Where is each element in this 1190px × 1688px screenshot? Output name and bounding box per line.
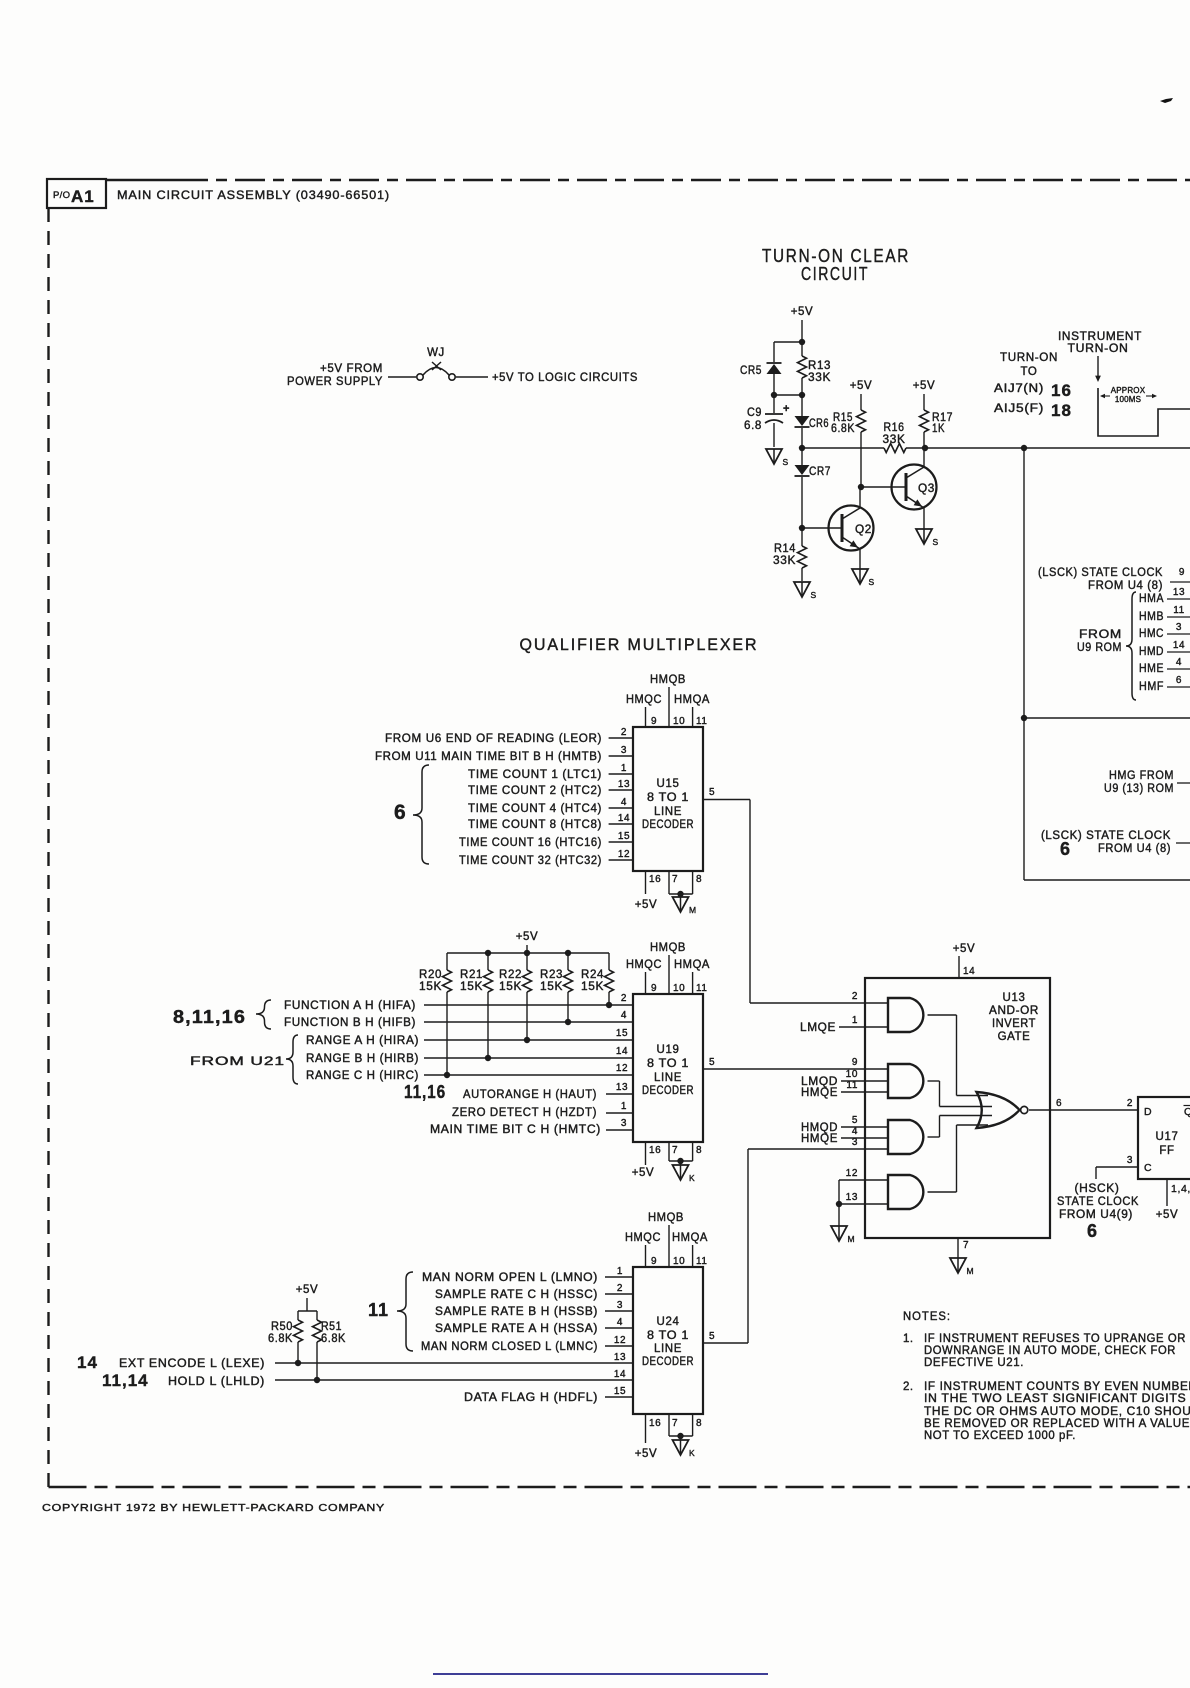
svg-text:M: M [967, 1266, 974, 1276]
svg-text:Q3: Q3 [918, 483, 935, 495]
svg-text:TIME COUNT 32 (HTC32): TIME COUNT 32 (HTC32) [459, 855, 602, 867]
svg-text:MAN NORM OPEN L (LMNO): MAN NORM OPEN L (LMNO) [422, 1272, 598, 1284]
svg-text:R22: R22 [499, 969, 522, 981]
svg-text:M: M [848, 1234, 855, 1244]
svg-text:ZERO DETECT H (HZDT): ZERO DETECT H (HZDT) [452, 1107, 597, 1119]
svg-text:11,14: 11,14 [102, 1371, 149, 1390]
svg-text:U24: U24 [657, 1316, 680, 1328]
svg-text:RANGE B H (HIRB): RANGE B H (HIRB) [306, 1053, 419, 1065]
svg-text:DECODER: DECODER [642, 1356, 694, 1368]
svg-text:15K: 15K [460, 981, 483, 993]
svg-text:HMQE: HMQE [801, 1133, 838, 1145]
svg-text:15K: 15K [419, 981, 442, 993]
svg-text:3: 3 [617, 1300, 623, 1311]
svg-text:TO: TO [1021, 366, 1038, 378]
svg-text:3: 3 [1127, 1155, 1133, 1166]
svg-text:Q: Q [1184, 1106, 1190, 1118]
svg-text:FROM U4(9): FROM U4(9) [1059, 1209, 1133, 1221]
svg-text:R51: R51 [321, 1321, 342, 1333]
svg-text:11: 11 [696, 716, 708, 727]
svg-text:TURN-ON: TURN-ON [1000, 352, 1058, 364]
svg-text:HMQC: HMQC [626, 694, 662, 706]
svg-text:AIJ7(N): AIJ7(N) [994, 383, 1044, 395]
svg-text:SAMPLE RATE B H (HSSB): SAMPLE RATE B H (HSSB) [435, 1306, 598, 1318]
svg-text:4: 4 [617, 1317, 623, 1328]
svg-text:+5V: +5V [516, 931, 539, 943]
svg-text:15: 15 [618, 831, 630, 842]
svg-text:TIME COUNT 2 (HTC2): TIME COUNT 2 (HTC2) [468, 785, 602, 797]
svg-text:1,4,: 1,4, [1171, 1183, 1190, 1195]
svg-text:FROM U4 (8): FROM U4 (8) [1098, 843, 1171, 855]
svg-text:3: 3 [621, 745, 627, 756]
svg-text:13: 13 [614, 1352, 626, 1363]
svg-text:+5V: +5V [913, 380, 936, 392]
svg-text:U15: U15 [657, 778, 680, 790]
svg-text:9: 9 [651, 716, 657, 727]
svg-text:16: 16 [1051, 381, 1072, 400]
svg-text:4: 4 [621, 797, 627, 808]
svg-text:+: + [783, 403, 790, 415]
svg-text:9: 9 [651, 983, 657, 994]
svg-text:R14: R14 [774, 543, 796, 555]
svg-text:11: 11 [368, 1300, 389, 1320]
svg-text:4: 4 [621, 1010, 627, 1021]
svg-text:2.: 2. [903, 1381, 914, 1393]
svg-text:6: 6 [1176, 675, 1182, 686]
svg-text:CR6: CR6 [809, 418, 829, 430]
svg-text:8: 8 [696, 874, 702, 885]
svg-text:Q2: Q2 [855, 524, 872, 536]
svg-text:33K: 33K [808, 372, 831, 384]
svg-text:MAIN TIME BIT C H (HMTC): MAIN TIME BIT C H (HMTC) [430, 1124, 601, 1136]
svg-text:16: 16 [649, 1145, 661, 1156]
svg-text:WJ: WJ [427, 347, 445, 359]
svg-text:TIME COUNT 4 (HTC4): TIME COUNT 4 (HTC4) [468, 803, 602, 815]
svg-text:DEFECTIVE U21.: DEFECTIVE U21. [924, 1357, 1024, 1369]
svg-text:11: 11 [696, 1256, 708, 1267]
svg-text:1: 1 [621, 1101, 627, 1112]
svg-text:5: 5 [852, 1115, 858, 1126]
svg-text:12: 12 [616, 1063, 628, 1074]
svg-text:15K: 15K [581, 981, 604, 993]
svg-text:14: 14 [614, 1369, 626, 1380]
svg-text:33K: 33K [883, 434, 906, 446]
svg-text:2: 2 [621, 727, 627, 738]
svg-text:DOWNRANGE IN AUTO MODE, CHECK: DOWNRANGE IN AUTO MODE, CHECK FOR [924, 1345, 1176, 1357]
svg-text:8,11,16: 8,11,16 [173, 1007, 246, 1027]
svg-text:TIME COUNT 16 (HTC16): TIME COUNT 16 (HTC16) [459, 837, 602, 849]
svg-text:11: 11 [696, 983, 708, 994]
svg-text:FROM U11 MAIN TIME BIT B H (HM: FROM U11 MAIN TIME BIT B H (HMTB) [375, 751, 602, 763]
svg-text:11: 11 [846, 1080, 858, 1091]
svg-text:3: 3 [852, 1137, 858, 1148]
svg-text:LMQE: LMQE [800, 1022, 836, 1034]
svg-text:8: 8 [696, 1418, 702, 1429]
svg-text:INSTRUMENT: INSTRUMENT [1058, 331, 1142, 343]
svg-text:STATE CLOCK: STATE CLOCK [1057, 1196, 1139, 1208]
svg-text:6.8K: 6.8K [268, 1333, 293, 1345]
svg-text:100MS: 100MS [1115, 395, 1141, 404]
svg-text:15: 15 [616, 1028, 628, 1039]
svg-text:14: 14 [1173, 640, 1185, 651]
svg-text:LINE: LINE [654, 1343, 682, 1355]
svg-text:SAMPLE RATE A H (HSSA): SAMPLE RATE A H (HSSA) [435, 1323, 598, 1335]
svg-text:1.: 1. [903, 1333, 914, 1345]
svg-text:15K: 15K [540, 981, 563, 993]
svg-text:15K: 15K [499, 981, 522, 993]
svg-text:INVERT: INVERT [992, 1018, 1036, 1030]
svg-text:HMQE: HMQE [801, 1087, 838, 1099]
svg-text:10: 10 [673, 1256, 685, 1267]
svg-text:S: S [783, 457, 789, 467]
svg-text:+5V: +5V [1156, 1209, 1179, 1221]
svg-text:FROM U6 END OF READING (LEOR): FROM U6 END OF READING (LEOR) [385, 733, 602, 745]
svg-text:6.8K: 6.8K [321, 1333, 346, 1345]
svg-text:U9 ROM: U9 ROM [1077, 642, 1122, 654]
svg-text:MAN NORM CLOSED L (LMNC): MAN NORM CLOSED L (LMNC) [421, 1341, 598, 1353]
svg-text:+5V: +5V [953, 943, 976, 955]
svg-text:HMQC: HMQC [626, 959, 662, 971]
svg-text:7: 7 [963, 1240, 969, 1251]
svg-text:13: 13 [846, 1192, 858, 1203]
svg-text:HMQA: HMQA [674, 694, 710, 706]
svg-text:FUNCTION B H (HIFB): FUNCTION B H (HIFB) [284, 1017, 416, 1029]
svg-text:SAMPLE RATE C H (HSSC): SAMPLE RATE C H (HSSC) [435, 1289, 598, 1301]
svg-text:NOT TO EXCEED 1000 pF.: NOT TO EXCEED 1000 pF. [924, 1430, 1076, 1442]
svg-text:1K: 1K [932, 423, 945, 435]
svg-text:CIRCUIT: CIRCUIT [801, 264, 869, 284]
svg-text:6: 6 [394, 801, 406, 824]
svg-text:(LSCK) STATE CLOCK: (LSCK) STATE CLOCK [1038, 567, 1163, 579]
svg-text:11: 11 [1173, 605, 1185, 616]
svg-text:5: 5 [709, 787, 715, 798]
svg-text:14: 14 [963, 966, 975, 977]
svg-text:6: 6 [1060, 839, 1071, 859]
svg-text:EXT ENCODE L (LEXE): EXT ENCODE L (LEXE) [119, 1358, 265, 1370]
svg-text:HMQB: HMQB [648, 1212, 684, 1224]
svg-text:7: 7 [672, 874, 678, 885]
svg-text:R16: R16 [884, 422, 905, 434]
svg-text:+5V TO LOGIC CIRCUITS: +5V TO LOGIC CIRCUITS [492, 372, 638, 384]
svg-text:HMD: HMD [1139, 646, 1164, 658]
svg-text:HOLD L (LHLD): HOLD L (LHLD) [168, 1376, 265, 1388]
svg-text:DECODER: DECODER [642, 1085, 694, 1097]
svg-text:NOTES:: NOTES: [903, 1311, 951, 1323]
svg-text:HMG FROM: HMG FROM [1109, 770, 1174, 782]
svg-text:POWER SUPPLY: POWER SUPPLY [287, 376, 383, 388]
svg-text:FROM: FROM [1079, 629, 1122, 641]
svg-text:+5V: +5V [296, 1284, 319, 1296]
svg-text:S: S [933, 537, 939, 547]
svg-text:14: 14 [618, 813, 630, 824]
svg-text:FUNCTION A H (HIFA): FUNCTION A H (HIFA) [284, 1000, 416, 1012]
svg-text:2: 2 [1127, 1098, 1133, 1109]
svg-text:12: 12 [618, 849, 630, 860]
svg-text:+5V: +5V [635, 1448, 658, 1460]
svg-text:15: 15 [614, 1386, 626, 1397]
svg-text:13: 13 [1173, 587, 1185, 598]
svg-text:18: 18 [1051, 401, 1072, 420]
svg-text:6.8: 6.8 [744, 420, 762, 432]
svg-text:5: 5 [709, 1057, 715, 1068]
svg-text:3: 3 [1176, 622, 1182, 633]
svg-text:GATE: GATE [998, 1031, 1031, 1043]
svg-text:+5V: +5V [850, 380, 873, 392]
svg-text:P/O: P/O [53, 190, 70, 201]
svg-text:TURN-ON CLEAR: TURN-ON CLEAR [762, 246, 910, 266]
svg-text:6: 6 [1056, 1098, 1062, 1109]
svg-text:THE DC OR OHMS AUTO MODE, C10: THE DC OR OHMS AUTO MODE, C10 SHOULD [924, 1406, 1190, 1418]
svg-text:1: 1 [617, 1266, 623, 1277]
svg-text:5: 5 [709, 1331, 715, 1342]
svg-text:QUALIFIER MULTIPLEXER: QUALIFIER MULTIPLEXER [520, 635, 759, 654]
svg-text:IF INSTRUMENT COUNTS BY EVEN N: IF INSTRUMENT COUNTS BY EVEN NUMBERS [924, 1381, 1190, 1393]
svg-text:10: 10 [846, 1069, 858, 1080]
svg-text:HMC: HMC [1139, 628, 1164, 640]
svg-text:(HSCK): (HSCK) [1075, 1183, 1120, 1195]
svg-text:U13: U13 [1003, 992, 1026, 1004]
svg-text:8 TO 1: 8 TO 1 [647, 1330, 689, 1342]
svg-text:HMF: HMF [1139, 681, 1164, 693]
svg-text:CR7: CR7 [809, 466, 831, 478]
svg-text:9: 9 [1179, 567, 1185, 578]
svg-text:HMQA: HMQA [672, 1232, 708, 1244]
svg-text:+5V: +5V [635, 899, 658, 911]
svg-text:R20: R20 [419, 969, 442, 981]
svg-text:3: 3 [621, 1118, 627, 1129]
svg-text:RANGE C H (HIRC): RANGE C H (HIRC) [306, 1070, 419, 1082]
svg-text:BE REMOVED OR REPLACED WITH A: BE REMOVED OR REPLACED WITH A VALUE [924, 1418, 1190, 1430]
svg-text:2: 2 [617, 1283, 623, 1294]
svg-text:CR5: CR5 [740, 365, 762, 377]
svg-text:TIME COUNT 1 (LTC1): TIME COUNT 1 (LTC1) [468, 769, 602, 781]
svg-text:HMQC: HMQC [625, 1232, 661, 1244]
svg-text:C9: C9 [747, 407, 762, 419]
svg-text:R50: R50 [271, 1321, 293, 1333]
svg-text:D: D [1144, 1106, 1152, 1118]
svg-text:8 TO 1: 8 TO 1 [647, 792, 689, 804]
svg-text:7: 7 [672, 1145, 678, 1156]
svg-text:LINE: LINE [654, 806, 682, 818]
svg-text:HMA: HMA [1139, 593, 1164, 605]
svg-text:8 TO 1: 8 TO 1 [647, 1058, 689, 1070]
svg-text:10: 10 [673, 716, 685, 727]
svg-text:IN THE TWO LEAST SIGNIFICANT D: IN THE TWO LEAST SIGNIFICANT DIGITS IN [924, 1393, 1190, 1405]
svg-text:2: 2 [852, 991, 858, 1002]
svg-text:AUTORANGE H (HAUT): AUTORANGE H (HAUT) [463, 1089, 597, 1101]
svg-text:A1: A1 [71, 187, 95, 206]
svg-text:14: 14 [616, 1046, 628, 1057]
svg-text:R13: R13 [808, 360, 831, 372]
svg-text:S: S [811, 590, 817, 600]
svg-text:9: 9 [651, 1256, 657, 1267]
svg-text:TIME COUNT 8 (HTC8): TIME COUNT 8 (HTC8) [468, 819, 602, 831]
svg-text:33K: 33K [773, 555, 796, 567]
svg-text:APPROX: APPROX [1111, 386, 1146, 395]
svg-text:AIJ5(F): AIJ5(F) [994, 403, 1044, 415]
svg-text:10: 10 [673, 983, 685, 994]
svg-text:U19: U19 [657, 1044, 680, 1056]
svg-text:HMQB: HMQB [650, 674, 686, 686]
svg-text:HMQB: HMQB [650, 942, 686, 954]
svg-text:6.8K: 6.8K [831, 423, 855, 435]
svg-text:11,16: 11,16 [404, 1082, 446, 1102]
svg-text:DECODER: DECODER [642, 819, 694, 831]
svg-text:16: 16 [649, 874, 661, 885]
svg-text:AND-OR: AND-OR [989, 1005, 1039, 1017]
svg-text:4: 4 [852, 1126, 858, 1137]
svg-text:IF INSTRUMENT REFUSES TO UPRAN: IF INSTRUMENT REFUSES TO UPRANGE OR [924, 1333, 1186, 1345]
svg-text:7: 7 [672, 1418, 678, 1429]
svg-text:1: 1 [621, 763, 627, 774]
svg-text:U17: U17 [1156, 1131, 1179, 1143]
svg-text:HMB: HMB [1139, 611, 1164, 623]
svg-text:2: 2 [621, 993, 627, 1004]
svg-text:+5V: +5V [791, 306, 814, 318]
svg-text:13: 13 [618, 779, 630, 790]
svg-text:4: 4 [1176, 657, 1182, 668]
svg-text:R24: R24 [581, 969, 604, 981]
svg-text:12: 12 [614, 1335, 626, 1346]
svg-text:R23: R23 [540, 969, 563, 981]
svg-text:9: 9 [852, 1057, 858, 1068]
svg-text:COPYRIGHT 1972 BY HEWLETT-PACK: COPYRIGHT 1972 BY HEWLETT-PACKARD COMPAN… [42, 1502, 385, 1514]
svg-text:12: 12 [846, 1168, 858, 1179]
svg-text:6: 6 [1087, 1221, 1098, 1241]
svg-text:13: 13 [616, 1082, 628, 1093]
svg-text:U9 (13) ROM: U9 (13) ROM [1104, 783, 1174, 795]
svg-text:K: K [689, 1448, 695, 1458]
svg-text:MAIN CIRCUIT ASSEMBLY (03490-6: MAIN CIRCUIT ASSEMBLY (03490-66501) [117, 188, 390, 202]
svg-text:14: 14 [77, 1353, 98, 1372]
svg-text:+5V FROM: +5V FROM [320, 363, 383, 375]
svg-text:S: S [869, 577, 875, 587]
svg-text:K: K [689, 1173, 695, 1183]
svg-text:M: M [689, 905, 696, 915]
svg-text:FF: FF [1159, 1145, 1174, 1157]
svg-text:TURN-ON: TURN-ON [1068, 343, 1129, 355]
svg-text:R21: R21 [460, 969, 483, 981]
svg-text:+5V: +5V [632, 1167, 655, 1179]
svg-text:HME: HME [1139, 663, 1164, 675]
svg-text:FROM U4 (8): FROM U4 (8) [1088, 580, 1163, 592]
svg-text:8: 8 [696, 1145, 702, 1156]
svg-text:16: 16 [649, 1418, 661, 1429]
svg-text:DATA FLAG H (HDFL): DATA FLAG H (HDFL) [464, 1392, 598, 1404]
svg-text:HMQA: HMQA [674, 959, 710, 971]
svg-text:1: 1 [852, 1015, 858, 1026]
svg-text:LINE: LINE [654, 1072, 682, 1084]
svg-text:C: C [1144, 1162, 1152, 1174]
svg-text:RANGE A H (HIRA): RANGE A H (HIRA) [306, 1035, 419, 1047]
svg-text:FROM U21: FROM U21 [190, 1056, 285, 1068]
